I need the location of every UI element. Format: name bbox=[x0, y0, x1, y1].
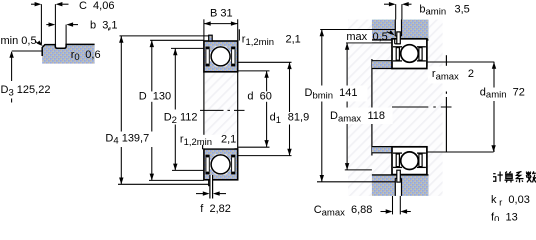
shaft end face bbox=[445, 55, 447, 66]
shaft shoulder top bbox=[372, 61, 393, 68]
系 bbox=[516, 172, 522, 179]
d extension lines bbox=[238, 70, 270, 72]
dimension f 2,82 bbox=[196, 191, 226, 195]
bore silhouette lines bbox=[203, 72, 205, 149]
d1 extension lines bbox=[236, 61, 291, 63]
axis centreline bbox=[197, 109, 245, 111]
snap ring bottom (right view) bbox=[397, 170, 401, 182]
dimension line d 60 bbox=[264, 71, 268, 147]
axis centreline right view bbox=[392, 106, 452, 108]
D_amax extension lines bbox=[346, 42, 401, 44]
svg-text:D 130: D 130 bbox=[139, 90, 171, 102]
D extension lines bbox=[150, 39, 204, 41]
dimension line D 130 bbox=[150, 40, 154, 180]
dimension C_amax 6,88 bbox=[381, 196, 411, 214]
header 计算系数 (drawn strokes) bbox=[493, 171, 536, 182]
dimension line D2 112 bbox=[173, 48, 177, 170]
svg-text:B 31: B 31 bbox=[210, 7, 233, 19]
dimension b_amin 3,5 bbox=[384, 2, 412, 20]
bearing top section bbox=[204, 35, 238, 72]
snap ring top (right view) bbox=[397, 32, 401, 44]
bearing bottom section (right view) bbox=[392, 147, 427, 175]
bearing bottom section bbox=[204, 149, 238, 186]
label r1,2min 2,1 top bbox=[238, 29, 240, 40]
housing bottom block bbox=[372, 175, 429, 196]
svg-text:0,5: 0,5 bbox=[373, 31, 388, 43]
stray tick bbox=[108, 28, 110, 30]
svg-text:C 4,06: C 4,06 bbox=[79, 0, 114, 12]
svg-text:max: max bbox=[346, 31, 367, 43]
shaft face bbox=[371, 59, 373, 156]
计 bbox=[493, 173, 495, 175]
D4 extension lines bbox=[120, 35, 209, 37]
housing top block bbox=[372, 20, 429, 40]
dimension D3 125,22 bbox=[9, 51, 42, 103]
算 bbox=[505, 172, 513, 175]
数 bbox=[528, 171, 530, 176]
svg-text:min 0,5: min 0,5 bbox=[1, 35, 37, 47]
middle view bore hatch bbox=[205, 73, 237, 149]
dimension line D_bmin 141 bbox=[320, 30, 324, 182]
D_bmin extension lines bbox=[320, 29, 395, 31]
bearing top section (right view) bbox=[392, 39, 427, 69]
f groove slot bbox=[210, 175, 213, 199]
svg-text:d 60: d 60 bbox=[247, 90, 271, 102]
dimension B 31 bbox=[204, 19, 238, 40]
dimension line d1 81,9 bbox=[287, 62, 291, 155]
groove detail cross-section bbox=[42, 44, 94, 63]
dimension line D4 139,7 bbox=[119, 36, 123, 184]
shaft shoulder bottom bbox=[372, 147, 393, 152]
dimension C 4,06 bbox=[31, 2, 69, 48]
dimension b 3,1 bbox=[46, 22, 78, 47]
svg-text:f 2,82: f 2,82 bbox=[200, 203, 231, 215]
D2 extension lines bbox=[171, 47, 204, 49]
d_amin extension lines + dimension bbox=[427, 62, 496, 152]
dimension line D_amax 118 bbox=[345, 43, 349, 170]
svg-text:b 3,1: b 3,1 bbox=[90, 19, 118, 31]
